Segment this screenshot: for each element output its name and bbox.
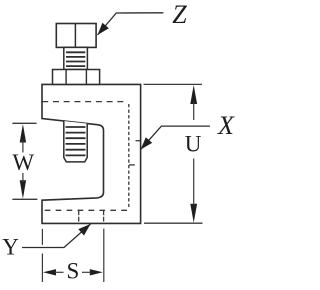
dimension W bottom arrow xyxy=(20,180,26,199)
tick mark near dashed line xyxy=(129,164,135,166)
svg-text:X: X xyxy=(217,111,235,140)
svg-text:Z: Z xyxy=(172,0,187,29)
leader arrow X xyxy=(141,137,153,149)
leader line Z xyxy=(98,13,164,35)
nut facet lines xyxy=(65,70,67,85)
tick mark on right edge xyxy=(136,140,141,142)
dimension U top tick xyxy=(144,83,203,85)
dimension U bottom arrow xyxy=(190,204,197,223)
dimension U line lower xyxy=(193,159,195,206)
stud thread lines xyxy=(66,127,86,155)
dimension W top arrow xyxy=(20,124,26,143)
hidden dashed bottom line xyxy=(45,209,127,211)
dimension W top tick xyxy=(12,122,36,124)
shank thread lines xyxy=(66,52,85,66)
bolt head Z xyxy=(56,24,96,48)
dimension W line lower xyxy=(22,173,24,182)
leader arrow Z xyxy=(98,23,109,35)
bolt shank xyxy=(64,47,88,69)
svg-text:W: W xyxy=(12,150,34,175)
dimension S line left xyxy=(55,271,64,273)
threaded stud in opening xyxy=(64,121,87,162)
dimension S left arrow xyxy=(43,269,56,275)
dimension S line right xyxy=(82,271,91,273)
dimension S left extension line lower xyxy=(41,254,43,283)
dimension S right arrow xyxy=(90,269,103,275)
svg-text:Y: Y xyxy=(2,235,19,260)
leader line Y xyxy=(22,224,91,248)
dimension S right extension line xyxy=(103,229,105,282)
leader arrow Y xyxy=(78,224,90,236)
hidden dashed top line xyxy=(42,101,123,103)
hidden dash stub left xyxy=(78,211,80,223)
dimension W line upper xyxy=(22,140,24,153)
leader line X xyxy=(141,126,210,149)
dimension U top arrow xyxy=(190,85,197,104)
clamp body outline xyxy=(42,84,141,223)
dimension S left extension line upper xyxy=(41,229,43,245)
svg-text:U: U xyxy=(185,132,202,157)
dimension U bottom tick xyxy=(144,222,203,224)
dimension U line upper xyxy=(193,102,195,120)
bolt head facet line xyxy=(74,24,76,48)
hidden dash stub right xyxy=(103,211,105,223)
hidden dashed right line xyxy=(128,104,130,207)
svg-text:S: S xyxy=(67,259,80,284)
hex nut xyxy=(53,70,100,85)
dimension W bottom tick xyxy=(12,198,37,200)
